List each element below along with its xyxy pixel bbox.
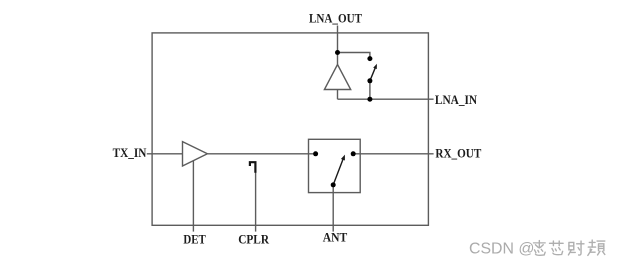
switch arm bypass arrowhead xyxy=(373,64,377,69)
wire top junction to bypass switch xyxy=(338,53,370,59)
wire ANT stem xyxy=(332,185,334,232)
svg-text:LNA_IN: LNA_IN xyxy=(435,93,477,107)
watermark chinese glyphs xyxy=(534,240,605,255)
glyph xin1 xyxy=(550,241,564,255)
wire junction to LNA apex xyxy=(337,53,339,65)
switch arm antenna arrowhead xyxy=(341,155,345,161)
wire PA output to antenna switch xyxy=(207,153,315,155)
op-amp PA triangle xyxy=(183,142,208,166)
svg-text:CPLR: CPLR xyxy=(238,232,270,246)
glyph xi1 xyxy=(534,241,546,256)
glyph she4 xyxy=(568,241,584,255)
wire TX_IN xyxy=(147,153,183,155)
svg-text:ANT: ANT xyxy=(323,230,348,244)
svg-text:LNA_OUT: LNA_OUT xyxy=(309,12,363,26)
wire RX_OUT xyxy=(353,153,433,155)
node bypass pole xyxy=(367,78,372,83)
coupler CPLR hook xyxy=(250,162,256,173)
node junction top xyxy=(335,50,340,55)
switch arm antenna xyxy=(333,158,343,185)
svg-text:TX_IN: TX_IN xyxy=(113,146,147,160)
wire CPLR stem xyxy=(255,173,257,232)
svg-text:CSDN @: CSDN @ xyxy=(469,240,535,257)
op-amp LNA triangle xyxy=(324,65,350,90)
node switch ANT pole xyxy=(331,182,336,187)
svg-text:RX_OUT: RX_OUT xyxy=(435,146,481,160)
wire LNA_IN xyxy=(338,98,434,100)
node LNA_IN junction xyxy=(367,97,372,102)
wire LNA base down xyxy=(337,90,339,100)
node switch RX throw xyxy=(351,151,356,156)
glyph pin2 xyxy=(588,240,605,255)
wire DET stem xyxy=(192,161,194,232)
svg-text:DET: DET xyxy=(183,232,206,246)
wire LNA_OUT stem xyxy=(337,26,339,53)
antenna switch box xyxy=(309,139,361,192)
switch arm bypass xyxy=(370,67,376,81)
node switch TX throw xyxy=(313,151,318,156)
module outline box xyxy=(152,33,428,225)
node bypass throw xyxy=(367,56,372,61)
wire bypass switch pole link xyxy=(369,81,371,99)
